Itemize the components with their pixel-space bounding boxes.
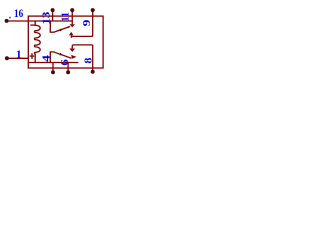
- pin 11 dot: [70, 8, 74, 12]
- svg-text:16: 16: [14, 8, 23, 20]
- NO1 down arrowhead: [69, 24, 75, 27]
- coil winding: [35, 21, 41, 63]
- svg-text:4: 4: [41, 55, 52, 62]
- bottom armature end arrowhead: [71, 55, 76, 59]
- top pole foot: [50, 31, 55, 33]
- pin 9 wire: down, corner, left bridge, up-stub: [71, 10, 92, 38]
- pin 16 dot: [5, 19, 9, 23]
- wire pin1: [7, 57, 28, 59]
- bottom contact rail: [28, 62, 78, 64]
- svg-text:13: 13: [41, 12, 52, 25]
- bottom pole drop: [49, 52, 51, 63]
- component body (relay outline): [28, 16, 103, 68]
- pin 8 branch to NO2: [72, 45, 92, 49]
- NO1 arrow stem: [71, 21, 73, 24]
- pin 8 wire: vertical from branch corner down to dot: [92, 45, 94, 72]
- top pole drop: [49, 21, 51, 32]
- pin 6 stub: [67, 63, 69, 73]
- top armature end arrowhead: [68, 26, 71, 28]
- pin 13 dot: [51, 8, 55, 12]
- pin 1 dot: [5, 56, 9, 60]
- pin 9 dot: [91, 8, 95, 12]
- pin 11 stub: [71, 10, 73, 21]
- pin 13 stub: [52, 10, 54, 21]
- pin9 up arrowhead (NO1 contact): [69, 32, 74, 35]
- NO2 down arrowhead: [69, 49, 75, 52]
- stray blue speck: [9, 17, 10, 19]
- coil minus mark: [30, 24, 34, 26]
- bottom pole foot: [50, 51, 55, 53]
- pin 6 dot: [66, 70, 70, 74]
- coil plus mark: [30, 55, 35, 57]
- bottom armature mid arrowhead: [59, 53, 63, 55]
- bottom armature: [54, 52, 71, 58]
- svg-text:6: 6: [60, 59, 71, 65]
- svg-text:11: 11: [61, 12, 72, 22]
- pin 4 dot: [51, 70, 55, 74]
- svg-text:1: 1: [16, 49, 22, 61]
- wire pin16 + top contact rail: [7, 20, 73, 22]
- svg-text:9: 9: [82, 20, 93, 27]
- pin 8 dot: [91, 70, 95, 74]
- top armature mid arrowhead: [59, 29, 63, 31]
- top armature: [54, 27, 69, 32]
- svg-text:8: 8: [84, 58, 95, 64]
- pin 4 stub: [52, 63, 54, 73]
